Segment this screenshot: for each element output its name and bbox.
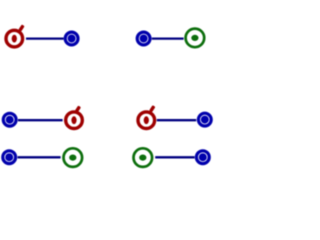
atom N (S3) shell circle [3,113,16,126]
atom N (S1) nucleus [68,35,76,43]
wire: bond Cl-N (S6) [155,156,194,158]
structure S4: O-N fragment (row 2 right) [138,105,211,128]
atom N (S5) shell circle [3,151,16,164]
structure S2: N-Cl fragment (row 1 right) [137,29,204,48]
atom Cl (S5) shell circle [64,148,83,167]
atom N (S2) shell circle [137,32,150,45]
atom N (S3) nucleus [6,116,14,124]
structure S6: Cl-N fragment (row 3 right) [134,148,210,167]
wire: bond O-N (S1) [26,37,64,39]
structure S5: N-Cl fragment (row 3 left) [3,148,82,167]
atom N (S6) nucleus [199,153,207,161]
structure S3: N-O fragment (row 2 left) [3,105,82,128]
atom O (S4) shell circle [138,112,155,129]
atom O (S3) nucleus [71,116,76,124]
atom Cl (S5) nucleus [69,155,76,161]
atom Cl (S2) nucleus [191,35,198,41]
charge mark on O (S4) [149,105,155,112]
atom N (S4) nucleus [201,116,209,124]
atom Cl (S2) shell circle [186,29,205,48]
wire: bond N-Cl (S2) [152,37,184,39]
atom N (S1) shell circle [65,32,78,45]
structure S1: O-N fragment (row 1 left) [6,24,78,47]
charge mark on O (S3) [75,105,81,112]
atom N (S4) shell circle [198,113,211,126]
atom Cl (S6) shell circle [134,148,153,167]
wire: bond O-N (S4) [157,119,196,121]
wire: bond N-O (S3) [18,119,63,121]
atom N (S6) shell circle [196,151,209,164]
atom O (S3) shell circle [66,112,83,129]
atom O (S4) nucleus [144,116,149,124]
atom Cl (S6) nucleus [139,155,146,161]
charge mark on O (S1) [18,24,24,31]
atom O (S1) nucleus [12,35,17,43]
wire: bond N-Cl (S5) [18,156,61,158]
atom O (S1) shell circle [6,30,23,47]
atom N (S2) nucleus [140,35,148,43]
atom N (S5) nucleus [5,153,13,161]
